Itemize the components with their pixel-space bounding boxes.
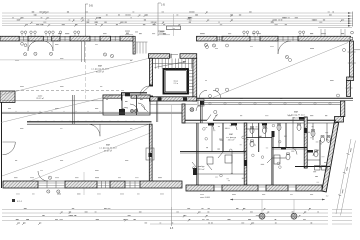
- chamfer dimension lines: [336, 139, 351, 214]
- svg-text:1-Б: 1-Б: [161, 4, 165, 7]
- svg-text:2.2 м: 2.2 м: [173, 83, 178, 85]
- entrance steps: [125, 31, 170, 54]
- grid pair verticals below band: [81, 41, 83, 62]
- canopy dashed line: [16, 90, 125, 92]
- svg-text:с.в. фасад 77 зонт: с.в. фасад 77 зонт: [91, 68, 109, 71]
- exterior wall right lower: [341, 101, 345, 117]
- lower room specks: [15, 128, 132, 171]
- window strips in top wall: [19, 36, 298, 41]
- svg-text:зал: зал: [106, 144, 111, 147]
- dimension chain lines top: [2, 13, 353, 26]
- bubbles near bottom-left wall: [47, 176, 60, 193]
- dimension figures above top wall: [58, 29, 345, 36]
- door arc above bottom wall: [38, 171, 48, 181]
- hall lower edge line: [0, 59, 133, 61]
- svg-text:94.19 м²: 94.19 м²: [96, 70, 104, 73]
- left small label bottom: [12, 199, 15, 202]
- right room specks: [205, 46, 334, 116]
- svg-text:зал: зал: [98, 65, 103, 68]
- right room glazing line: [203, 102, 340, 104]
- leader line right room: [213, 43, 348, 98]
- corridor below core: [150, 103, 197, 105]
- core left wall door: [142, 86, 150, 94]
- stair core top wall (hatched): [149, 54, 170, 59]
- corridor wall x200: [200, 101, 202, 123]
- corridor ticks: [16, 111, 100, 112]
- grid label flag A: [85, 4, 93, 8]
- svg-text:зал: зал: [294, 111, 299, 114]
- stair core right wall: [193, 58, 197, 101]
- cluster top wall door leaf: [207, 115, 211, 121]
- grid label flag B: [158, 3, 165, 7]
- grid line axis A vertical: [84, 4, 86, 36]
- svg-text:12.9 м²: 12.9 м²: [198, 168, 205, 171]
- sanitary fixtures: [207, 123, 331, 170]
- svg-text:с.в. фасад 77 зонт: с.в. фасад 77 зонт: [99, 147, 117, 150]
- door swing right room: [213, 90, 221, 98]
- grid line axis B vertical: [157, 3, 159, 36]
- interior wall mid-left: [27, 121, 152, 123]
- stair treads side run: [188, 71, 192, 93]
- leader line hall 2: [1, 96, 112, 123]
- figures below bottom-right wall: [200, 194, 328, 198]
- svg-text:отм. 0.000: отм. 0.000: [200, 197, 211, 199]
- exterior wall right upper (hatched): [350, 41, 354, 77]
- dimension tick marks bottom: [16, 208, 319, 225]
- right room bottom wall: [197, 97, 353, 99]
- grid line axis C vertical: [173, 14, 175, 36]
- corner cluster right: [335, 117, 344, 123]
- cluster internal vertical walls: [197, 117, 327, 185]
- door cluster at wall x150: [146, 148, 154, 160]
- interior door arc: [88, 124, 100, 136]
- exterior wall right step: [347, 77, 354, 81]
- door arc left lower: [3, 142, 16, 155]
- right wall crossing ticks: [348, 51, 356, 53]
- cluster internal horizontal walls: [180, 129, 330, 174]
- exterior wall bottom-right: [186, 185, 322, 191]
- vestibule wall left of entrance: [133, 36, 135, 54]
- stair core left wall: [150, 58, 153, 86]
- svg-text:маш: маш: [174, 81, 179, 83]
- dimension end arrows right: [318, 12, 353, 28]
- grid line axis D in plan: [171, 105, 173, 207]
- leader line lower room 2: [30, 133, 150, 181]
- svg-text:31.09 м²: 31.09 м²: [104, 149, 112, 152]
- dimension chain lines bottom: [2, 210, 352, 225]
- chamfer dimension ticks: [338, 148, 351, 196]
- interior wall ticks: [30, 121, 142, 122]
- window bubbles below band left: [21, 42, 24, 45]
- svg-text:1 к: 1 к: [326, 196, 329, 198]
- exterior wall bottom-left (hatched + windows): [3, 181, 182, 188]
- leader line lower room 1: [2, 125, 148, 177]
- entry door swing arcs below top wall: [28, 41, 291, 54]
- svg-text:23.17 м²: 23.17 м²: [36, 97, 44, 100]
- mullion bubbles on glazing line: [209, 102, 331, 104]
- crosshatched bubble 1: [259, 213, 265, 219]
- dimension tick marks and figures top: [12, 12, 344, 27]
- stair direction arrow: [155, 62, 187, 68]
- corridor edge double line: [2, 111, 182, 113]
- svg-text:Ф 5.1: Ф 5.1: [17, 200, 23, 203]
- cluster doors: [193, 117, 319, 175]
- crosshatched bubble 2: [291, 213, 297, 219]
- elevator shaft walls: [164, 69, 189, 94]
- exterior wall top (hatched segments): [0, 36, 351, 41]
- grid line axis D bottom: [171, 207, 173, 226]
- stair treads upper run: [153, 59, 193, 69]
- cluster top wall: [183, 119, 207, 121]
- column pier: [72, 95, 74, 124]
- corridor door cluster: [199, 90, 207, 98]
- hall annotation specks: [8, 44, 132, 109]
- window mullion bubbles above top wall: [21, 31, 305, 36]
- svg-text:5-Б: 5-Б: [89, 5, 93, 8]
- stair core bottom wall: [150, 97, 197, 101]
- core door blobs: [158, 97, 162, 100]
- wall pier left middle: [0, 91, 15, 102]
- grid line axis A in plan: [84, 41, 86, 100]
- reference bubbles below top wall: [24, 43, 289, 58]
- exterior wall left: [1, 102, 3, 188]
- upper dim line bottom zone: [230, 199, 325, 201]
- wall stub line right: [354, 49, 360, 51]
- svg-text:с.в. фасад: с.в. фасад: [226, 136, 237, 139]
- small label box top middle: [167, 26, 181, 30]
- dimension figures near bottom-left wall: [14, 177, 164, 194]
- grid line axis A lower: [83, 172, 85, 195]
- corner detail box top right: [350, 37, 353, 40]
- svg-text:с.в. фасад 77 зонт: с.в. фасад 77 зонт: [287, 114, 305, 117]
- wall x150 vertical (hatched): [149, 124, 152, 186]
- svg-text:78.0 м²: 78.0 м²: [293, 116, 300, 119]
- small bubbles right room: [206, 44, 346, 98]
- wc room cluster middle: [103, 93, 150, 115]
- exterior wall chamfer (hatched band): [322, 122, 339, 192]
- vestibule wall left (hatched): [182, 104, 185, 123]
- entrance door leaf: [170, 54, 172, 59]
- leader line hall 1: [1, 59, 148, 96]
- svg-text:тамбур: тамбур: [198, 166, 206, 168]
- svg-text:25.5 м²: 25.5 м²: [228, 139, 235, 142]
- hall interior line: [2, 100, 103, 102]
- cluster annotation specks: [192, 114, 332, 183]
- vestibule wall pair x157: [155, 101, 157, 122]
